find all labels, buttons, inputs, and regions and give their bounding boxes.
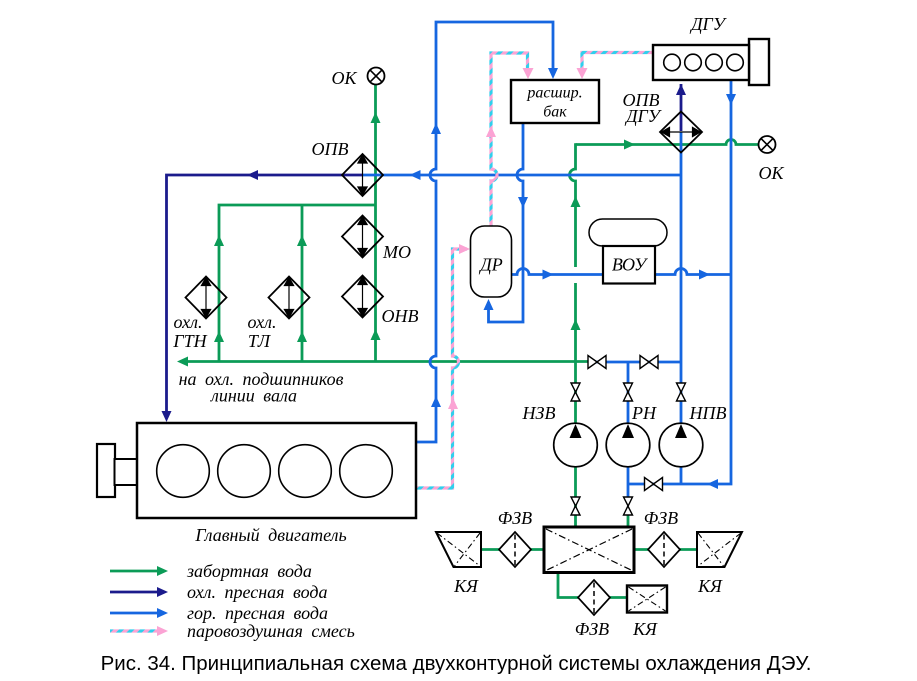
- svg-text:линии вала: линии вала: [210, 386, 297, 406]
- svg-text:Главный двигатель: Главный двигатель: [194, 525, 346, 545]
- svg-text:НПВ: НПВ: [689, 403, 727, 423]
- svg-text:ОК: ОК: [759, 163, 785, 183]
- svg-text:ГТН: ГТН: [172, 331, 207, 351]
- svg-text:КЯ: КЯ: [697, 576, 723, 596]
- svg-text:ФЗВ: ФЗВ: [575, 619, 609, 639]
- svg-text:ОПВ: ОПВ: [312, 139, 349, 159]
- svg-text:КЯ: КЯ: [453, 576, 479, 596]
- svg-text:забортная вода: забортная вода: [186, 561, 312, 581]
- svg-text:ДР: ДР: [478, 255, 502, 275]
- svg-text:охл.: охл.: [248, 312, 277, 332]
- svg-text:охл.: охл.: [174, 312, 203, 332]
- svg-text:ОК: ОК: [332, 68, 358, 88]
- svg-text:ДГУ: ДГУ: [689, 14, 727, 34]
- svg-text:паровоздушная смесь: паровоздушная смесь: [187, 621, 355, 641]
- svg-text:ФЗВ: ФЗВ: [498, 508, 532, 528]
- svg-text:НЗВ: НЗВ: [522, 403, 556, 423]
- svg-text:ВОУ: ВОУ: [612, 255, 648, 275]
- svg-text:ОНВ: ОНВ: [382, 306, 419, 326]
- svg-text:Рис. 34. Принципиальная схема: Рис. 34. Принципиальная схема двухконтур…: [101, 652, 812, 675]
- svg-text:ДГУ: ДГУ: [624, 106, 662, 126]
- svg-text:МО: МО: [382, 242, 411, 262]
- svg-text:гор. пресная вода: гор. пресная вода: [187, 603, 328, 623]
- svg-text:ТЛ: ТЛ: [248, 331, 272, 351]
- svg-text:охл. пресная вода: охл. пресная вода: [187, 582, 327, 602]
- svg-text:ФЗВ: ФЗВ: [644, 508, 678, 528]
- svg-text:РН: РН: [631, 403, 657, 423]
- svg-text:КЯ: КЯ: [632, 619, 658, 639]
- svg-text:бак: бак: [543, 104, 567, 121]
- svg-text:расшир.: расшир.: [526, 85, 582, 102]
